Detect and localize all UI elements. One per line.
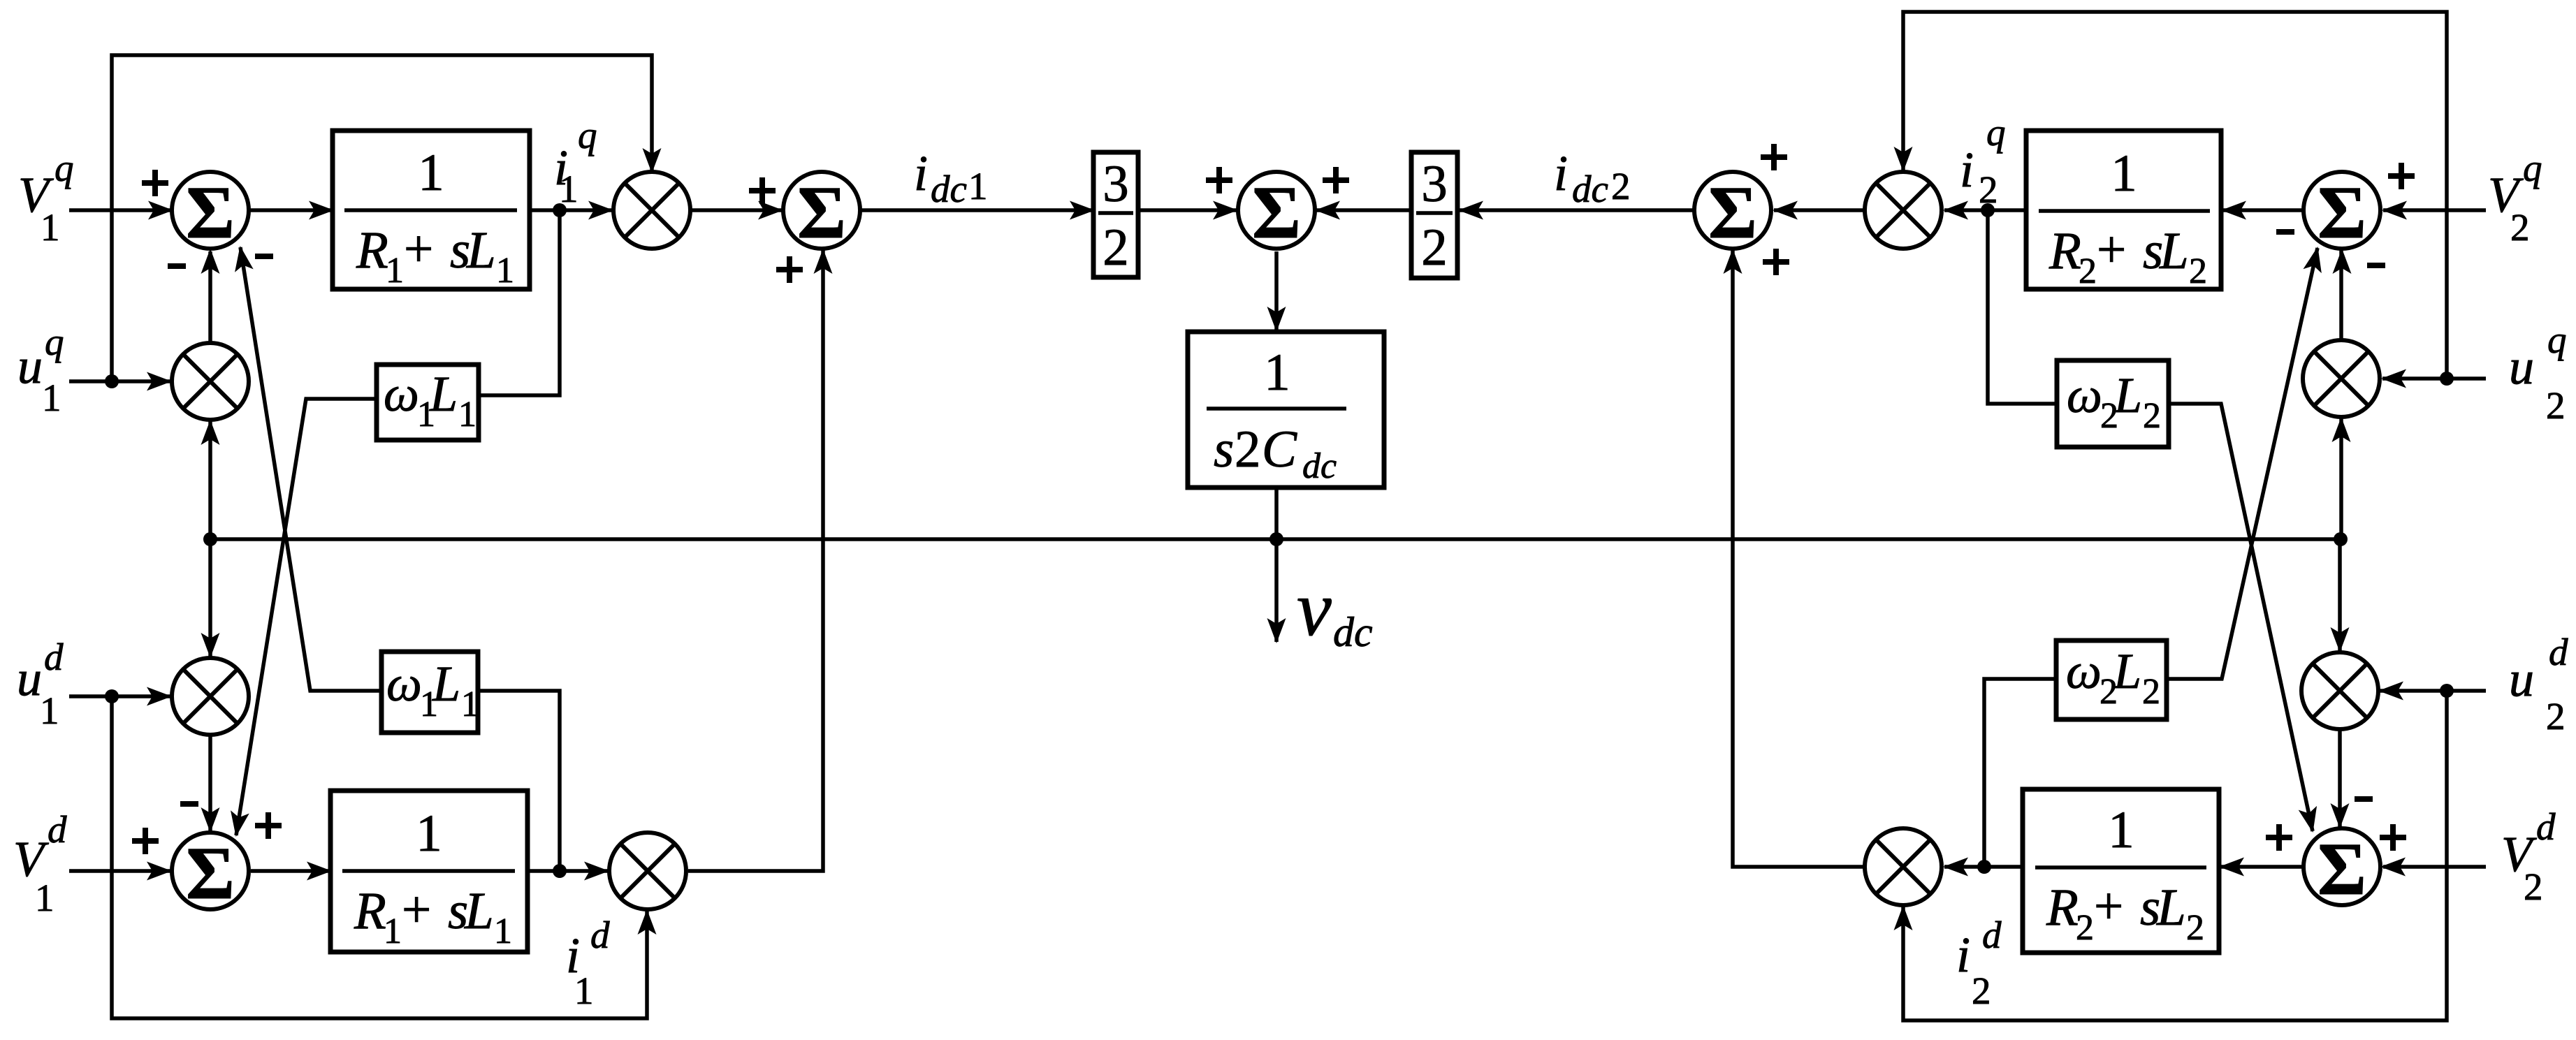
svg-text:R: R: [2049, 222, 2081, 280]
svg-text:i: i: [1960, 142, 1974, 198]
svg-text:Σ: Σ: [1252, 172, 1301, 254]
svg-text:R: R: [354, 882, 386, 940]
svg-text:1: 1: [2108, 801, 2134, 859]
svg-text:1: 1: [559, 168, 578, 210]
svg-text:1: 1: [35, 877, 54, 919]
svg-text:Σ: Σ: [797, 172, 846, 254]
svg-text:1: 1: [418, 144, 444, 202]
svg-text:2: 2: [2142, 672, 2160, 712]
svg-text:q: q: [2523, 147, 2542, 189]
svg-text:i: i: [1554, 145, 1568, 201]
svg-text:+: +: [404, 220, 433, 278]
svg-text:2: 2: [1979, 168, 1998, 211]
svg-text:d: d: [1982, 914, 2002, 956]
svg-text:ω: ω: [384, 366, 419, 422]
svg-text:d: d: [48, 808, 67, 851]
svg-text:L: L: [2156, 879, 2186, 937]
svg-text:L: L: [429, 366, 458, 422]
svg-text:1: 1: [494, 911, 512, 951]
svg-text:L: L: [2113, 367, 2142, 423]
svg-text:2: 2: [1103, 219, 1129, 277]
svg-text:2: 2: [2524, 865, 2543, 908]
svg-text:ω: ω: [386, 656, 422, 712]
svg-text:3: 3: [1421, 155, 1448, 213]
svg-text:+: +: [2094, 877, 2123, 935]
svg-text:Σ: Σ: [186, 833, 235, 915]
svg-text:u: u: [2509, 339, 2534, 395]
svg-text:Σ: Σ: [186, 172, 235, 254]
svg-text:q: q: [1986, 111, 2006, 154]
svg-text:R: R: [2046, 879, 2079, 937]
svg-text:R: R: [356, 221, 388, 279]
svg-text:1: 1: [386, 251, 404, 291]
svg-text:2: 2: [2546, 384, 2566, 427]
svg-text:d: d: [2549, 631, 2568, 673]
svg-text:d: d: [44, 636, 64, 678]
svg-text:i: i: [1956, 927, 1970, 983]
svg-text:2: 2: [1972, 969, 1991, 1012]
svg-text:2: 2: [2546, 695, 2566, 738]
svg-text:q: q: [2547, 318, 2567, 361]
svg-text:L: L: [2159, 222, 2189, 280]
svg-text:1: 1: [496, 251, 514, 291]
svg-text:1: 1: [41, 206, 60, 249]
svg-text:2: 2: [2510, 206, 2530, 249]
svg-text:1: 1: [574, 969, 594, 1012]
svg-text:v: v: [1297, 566, 1332, 652]
svg-text:dc: dc: [1302, 446, 1337, 486]
svg-text:2: 2: [2076, 908, 2094, 948]
svg-text:d: d: [590, 914, 610, 956]
svg-text:q: q: [45, 321, 64, 363]
svg-text:2: 2: [2143, 396, 2161, 436]
svg-text:1: 1: [2111, 145, 2137, 203]
svg-text:2: 2: [1421, 219, 1448, 277]
svg-text:dc: dc: [931, 168, 967, 210]
svg-text:1: 1: [968, 165, 988, 207]
svg-text:1: 1: [1264, 344, 1290, 402]
svg-text:2: 2: [2189, 251, 2207, 291]
svg-text:u: u: [2509, 651, 2534, 707]
svg-text:2: 2: [2186, 908, 2204, 948]
svg-text:L: L: [2113, 643, 2141, 699]
svg-text:ω: ω: [2066, 643, 2102, 699]
svg-text:2: 2: [1611, 165, 1631, 207]
svg-text:L: L: [464, 882, 494, 940]
svg-text:u: u: [17, 650, 42, 706]
svg-text:Σ: Σ: [2317, 172, 2366, 254]
svg-text:1: 1: [42, 376, 61, 419]
svg-text:2: 2: [1235, 420, 1261, 478]
svg-text:dc: dc: [1333, 609, 1373, 655]
svg-text:1: 1: [458, 395, 476, 434]
svg-text:Σ: Σ: [2317, 828, 2366, 911]
svg-text:d: d: [2536, 805, 2556, 848]
svg-text:L: L: [432, 656, 460, 712]
svg-text:L: L: [466, 221, 496, 279]
svg-text:+: +: [402, 881, 431, 939]
svg-text:Σ: Σ: [1708, 172, 1757, 254]
svg-text:+: +: [2097, 221, 2126, 279]
svg-text:1: 1: [461, 684, 479, 724]
svg-text:dc: dc: [1572, 168, 1608, 210]
svg-text:2: 2: [2079, 251, 2097, 291]
svg-text:s: s: [1214, 420, 1234, 478]
svg-text:1: 1: [384, 911, 402, 951]
svg-text:ω: ω: [2067, 367, 2102, 423]
svg-text:3: 3: [1103, 155, 1129, 213]
svg-text:q: q: [578, 114, 597, 156]
svg-text:1: 1: [40, 689, 59, 732]
svg-text:q: q: [54, 147, 74, 189]
svg-text:i: i: [914, 145, 928, 201]
svg-text:1: 1: [416, 805, 442, 863]
svg-text:u: u: [17, 338, 43, 394]
svg-text:C: C: [1262, 420, 1297, 478]
